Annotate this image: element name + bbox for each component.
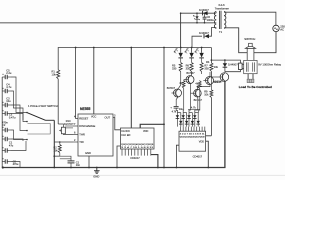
wire coil bottom xyxy=(225,70,241,72)
svg-text:1N4007: 1N4007 xyxy=(199,8,209,12)
diode D4 1N4007 bottom xyxy=(199,31,209,39)
resistor R4 xyxy=(206,48,219,78)
svg-text:DISCHARGE: DISCHARGE xyxy=(79,124,95,128)
IC U2 CD4017 second xyxy=(179,127,206,159)
svg-text:4.7u: 4.7u xyxy=(6,85,12,89)
wire 4017 pin8 to bus xyxy=(117,146,121,168)
svg-text:NE555: NE555 xyxy=(80,107,90,111)
capacitor C2 xyxy=(2,121,11,133)
svg-text:CD4017: CD4017 xyxy=(193,154,203,158)
wire IC2 right pin lower xyxy=(206,141,209,167)
switch S1 xyxy=(244,37,255,60)
svg-text:3 2 4 7 10 1 5 6 9 11: 3 2 4 7 10 1 5 6 9 11 xyxy=(180,134,206,136)
transistor Q2 BC547 xyxy=(197,72,224,87)
resistor R7 xyxy=(200,58,209,74)
svg-text:CD4017: CD4017 xyxy=(130,156,140,160)
resistor R3 base xyxy=(195,80,201,112)
svg-text:10k: 10k xyxy=(204,92,209,96)
resistor R9 xyxy=(204,76,213,136)
svg-text:2.2u: 2.2u xyxy=(6,71,12,75)
transistor Q4 BC547 xyxy=(191,87,203,113)
svg-text:10k: 10k xyxy=(52,72,57,76)
svg-text:470u: 470u xyxy=(13,162,19,166)
node bus-left xyxy=(2,166,4,168)
wire ground bus xyxy=(3,81,225,167)
IC U3 CD4017 first xyxy=(121,128,155,160)
diode matrix pair 1 xyxy=(176,113,183,127)
svg-text:9V 100Ohm Relay: 9V 100Ohm Relay xyxy=(258,63,281,67)
svg-text:6-0-6: 6-0-6 xyxy=(219,3,226,7)
wire reset line CD4017 xyxy=(140,124,164,128)
wire IC2 right pin upper xyxy=(206,135,212,137)
node reset-junction xyxy=(163,123,165,125)
svg-text:47u: 47u xyxy=(9,143,14,147)
relay K1 coil xyxy=(239,63,244,70)
diode matrix pair 2 xyxy=(181,113,188,127)
wire primary top xyxy=(224,12,276,25)
svg-text:BC547: BC547 xyxy=(167,86,176,90)
svg-text:Q0Q1Q2Q3Q4Q5Q6Q7Q8Q9: Q0Q1Q2Q3Q4Q5Q6Q7Q8Q9 xyxy=(121,144,154,146)
svg-text:10n: 10n xyxy=(76,164,81,167)
node rail junctions xyxy=(75,47,203,49)
svg-text:Transformer: Transformer xyxy=(215,7,229,11)
svg-text:4k7: 4k7 xyxy=(195,81,200,85)
svg-text:R4: R4 xyxy=(206,60,210,64)
capacitor C6 filter xyxy=(203,13,215,23)
capacitor C3b xyxy=(2,110,16,120)
svg-text:VDD: VDD xyxy=(199,141,204,144)
wire vertical bus x164 xyxy=(163,48,165,168)
svg-text:10u: 10u xyxy=(6,99,11,103)
wire AC to switch xyxy=(254,32,276,53)
rotary switch SW2 xyxy=(26,104,58,167)
wire trigger line xyxy=(54,141,73,143)
svg-text:Load To Be Controlled: Load To Be Controlled xyxy=(239,85,272,89)
svg-text:THR: THR xyxy=(79,133,85,137)
transistor Q1 BC547 xyxy=(184,71,195,113)
wire 555 gnd pin xyxy=(88,156,90,168)
node bus junctions xyxy=(53,167,209,169)
svg-text:Q0Q1Q2Q3Q4Q5Q6Q7Q8Q9: Q0Q1Q2Q3Q4Q5Q6Q7Q8Q9 xyxy=(180,137,206,139)
svg-text:1N4007: 1N4007 xyxy=(228,62,238,66)
svg-text:0.47u: 0.47u xyxy=(9,115,16,119)
svg-text:330: 330 xyxy=(186,66,191,70)
wire coil top feed xyxy=(211,60,240,63)
wire lower secondary to rail xyxy=(192,36,202,47)
label 4.7k bracket xyxy=(188,106,200,110)
svg-text:VDD: VDD xyxy=(143,130,148,133)
IC U1 NE555 xyxy=(73,107,116,156)
LED bank: LED1 xyxy=(174,48,183,58)
capacitor C8 xyxy=(170,106,183,113)
wire contact loop xyxy=(28,124,51,135)
transformer T1 xyxy=(214,3,229,34)
source V1 230V AC xyxy=(273,25,287,32)
wire center-tap gray line xyxy=(0,22,214,24)
svg-text:330: 330 xyxy=(204,66,209,70)
wire 4017 last pin to bus xyxy=(151,155,158,168)
svg-text:4.7k: 4.7k xyxy=(172,111,177,114)
diode D3 1N4007 top xyxy=(199,8,209,15)
node supply junctions xyxy=(180,12,206,23)
connector J1 load terminals xyxy=(247,74,254,83)
wire +9V top rail xyxy=(58,48,211,65)
svg-text:AC: AC xyxy=(280,28,284,32)
zener D1 xyxy=(193,13,200,23)
relay K1 contacts box xyxy=(244,60,282,73)
wire cap leads to contacts xyxy=(11,77,27,168)
transistor Q5 BC547 xyxy=(211,73,228,85)
svg-text:GND: GND xyxy=(93,174,99,178)
svg-text:4k7: 4k7 xyxy=(179,81,184,85)
diode matrix pair 3 xyxy=(187,113,194,127)
svg-text:1M POT: 1M POT xyxy=(64,122,74,126)
potentiometer R10 xyxy=(58,119,74,135)
wire trigger-cap link xyxy=(54,156,71,161)
svg-text:CLK EN: CLK EN xyxy=(121,134,130,137)
svg-text:CLOCK: CLOCK xyxy=(121,130,130,133)
transistor Q3 BC547 xyxy=(167,85,182,106)
capacitor C4 xyxy=(2,83,12,94)
capacitor C0a xyxy=(2,147,11,153)
diode D2 1N4007 flyback xyxy=(223,59,239,72)
capacitor C0b xyxy=(2,158,19,166)
svg-text:GND: GND xyxy=(85,151,91,155)
CD4017 bottom pins xyxy=(122,149,151,156)
wire lower diode to transformer xyxy=(208,28,216,37)
wire VCC riser NE555 xyxy=(93,48,95,115)
resistor R5 xyxy=(172,58,182,85)
LED2 xyxy=(185,48,194,58)
resistor R8 base xyxy=(179,80,185,113)
wire reset riser NE555 xyxy=(76,48,78,119)
diode matrix pair 4 xyxy=(193,113,200,127)
wire rectifier output vertical xyxy=(180,13,182,47)
wire R2 bottom link xyxy=(54,155,60,157)
svg-text:VCC: VCC xyxy=(91,116,96,119)
svg-text:330: 330 xyxy=(172,66,177,70)
svg-text:SWITCH: SWITCH xyxy=(244,37,255,41)
LED3 xyxy=(195,48,204,58)
svg-text:BC547: BC547 xyxy=(186,71,195,75)
svg-text:1 POLE-4 WAY SWITCH: 1 POLE-4 WAY SWITCH xyxy=(28,104,58,108)
resistor R2 xyxy=(53,141,61,156)
svg-text:TRI: TRI xyxy=(79,140,84,144)
svg-text:4.7k: 4.7k xyxy=(191,106,197,110)
wire faint bottom border xyxy=(0,174,285,176)
capacitor C7 trigger xyxy=(68,161,81,168)
wire 555 out to 4017 clock xyxy=(113,118,121,130)
resistor R1 xyxy=(52,64,60,124)
capacitor C3 xyxy=(2,97,11,108)
capacitor bank left xyxy=(1,77,3,168)
svg-text:OUT: OUT xyxy=(105,116,111,120)
capacitor C5 xyxy=(2,69,12,80)
wire VDD riser CD4017 xyxy=(130,48,132,129)
wire top secondary lead xyxy=(181,12,216,14)
capacitor C1b xyxy=(2,135,14,147)
svg-text:1000u: 1000u xyxy=(207,18,215,22)
wire pin7 stub xyxy=(65,125,73,127)
svg-text:T1: T1 xyxy=(219,30,223,34)
svg-text:BC547: BC547 xyxy=(215,80,224,84)
wire IC2 left pin to bus xyxy=(176,145,179,167)
node pole-bottom xyxy=(53,155,55,157)
ground symbol xyxy=(93,168,99,179)
svg-text:RESET: RESET xyxy=(79,117,88,121)
svg-text:3 2 4 7 10 1 5 6 9 11: 3 2 4 7 10 1 5 6 9 11 xyxy=(121,147,155,149)
svg-text:10k: 10k xyxy=(214,65,219,69)
resistor R6 xyxy=(186,58,194,76)
wire primary bottom xyxy=(224,28,247,53)
